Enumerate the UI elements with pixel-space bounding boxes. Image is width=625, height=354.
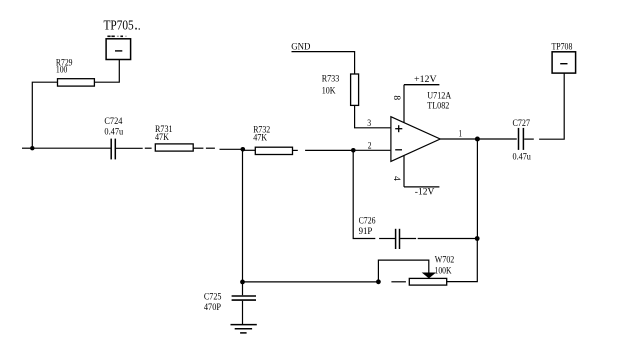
node: C725 junction: [240, 280, 245, 285]
wire: R732 right lead: [293, 149, 298, 151]
wire: bottom rail: [243, 281, 379, 283]
svg-text:4: 4: [391, 176, 401, 181]
artifact marks under TP705: [107, 36, 126, 38]
svg-text:470P: 470P: [204, 303, 221, 313]
svg-text:100K: 100K: [435, 267, 452, 277]
test point TP708 box: [552, 52, 576, 73]
wire: R731 right lead: [193, 147, 203, 149]
svg-text:GND: GND: [291, 42, 310, 52]
svg-text:47K: 47K: [155, 133, 169, 143]
svg-text:8: 8: [391, 95, 401, 100]
wire: op-amp output: [440, 138, 517, 140]
node: R732/C725 branch junction: [241, 147, 246, 152]
resistor R732: [255, 147, 292, 154]
svg-text:U712A: U712A: [427, 92, 451, 102]
node: wiper/bottom rail junction: [376, 279, 381, 284]
wire: wiper loop: [378, 260, 428, 282]
capacitor C726: [395, 229, 397, 249]
svg-text:+12V: +12V: [414, 75, 437, 85]
wire: output node down to feedback junction: [476, 139, 478, 239]
svg-text:C727: C727: [513, 119, 531, 129]
power +12V bar: [404, 84, 439, 86]
wire: junction to C724: [32, 147, 110, 149]
power -12V bar: [404, 186, 439, 188]
resistor R729: [58, 79, 95, 86]
svg-text:R733: R733: [322, 75, 340, 85]
ground: [231, 324, 257, 326]
wire: to R732 junction: [220, 148, 243, 150]
wire: C725 to ground: [242, 301, 244, 325]
wire: R729 to TP705: [94, 60, 119, 83]
svg-text:47K: 47K: [253, 134, 267, 144]
svg-text:100: 100: [56, 66, 68, 76]
svg-text:1: 1: [459, 129, 463, 139]
wire dash: [145, 147, 152, 149]
wire: R732 junction down to C725 junction: [242, 149, 244, 282]
wire: junction to op-amp pin 2: [353, 149, 390, 151]
svg-text:TL082: TL082: [427, 101, 449, 111]
svg-text:2: 2: [368, 141, 372, 151]
wire: +12V to op-amp top edge: [403, 85, 405, 123]
wire: junction up and right to R729: [32, 82, 57, 148]
wire: R733 to op-amp pin 3: [355, 105, 391, 127]
svg-text:91P: 91P: [359, 227, 373, 237]
node: output junction: [475, 137, 480, 142]
svg-text:C725: C725: [204, 293, 222, 303]
wire: to TP708: [539, 73, 564, 139]
wire: GND rail to R733: [292, 52, 355, 74]
op-amp plus input marking: [395, 128, 402, 130]
node: inverting input junction: [351, 148, 356, 153]
svg-text:C724: C724: [104, 117, 122, 127]
svg-text:-12V: -12V: [415, 188, 435, 198]
wire: feedback junction down and left to W702: [447, 239, 478, 282]
resistor R733: [351, 74, 359, 105]
TP708 contact dash: [560, 63, 567, 65]
wire: junction down to C725: [242, 282, 244, 295]
svg-text:C726: C726: [359, 216, 376, 226]
wire: inverting junction down to C726: [353, 150, 375, 238]
wire dash before W702: [391, 281, 406, 283]
wire: C727 right lead: [524, 138, 534, 140]
op-amp minus input marking: [395, 149, 402, 151]
op-amp U712A: [391, 117, 440, 162]
node: feedback junction: [475, 236, 480, 241]
svg-text:10K: 10K: [322, 86, 336, 96]
svg-text:0.47u: 0.47u: [104, 128, 123, 138]
capacitor C725: [232, 295, 256, 297]
capacitor C724: [110, 139, 112, 160]
svg-text:TP708: TP708: [552, 42, 573, 52]
capacitor C727: [518, 128, 520, 150]
svg-text:W702: W702: [435, 256, 455, 266]
potentiometer W702 body: [409, 278, 446, 285]
wire: junction to R732: [243, 149, 256, 151]
artifact dots after TP705: [135, 28, 137, 30]
test point TP705 box: [106, 39, 131, 60]
TP705 contact dash: [115, 50, 122, 52]
wire: to feedback junction: [418, 238, 478, 240]
wire: input stub to junction: [22, 147, 32, 149]
node: input junction: [30, 146, 34, 150]
svg-text:3: 3: [367, 119, 371, 129]
potentiometer wiper arrow: [422, 273, 436, 279]
resistor R731: [155, 144, 193, 151]
wire dash: [206, 147, 215, 149]
wire: to inverting junction: [305, 149, 353, 151]
svg-text:TP705: TP705: [104, 19, 134, 34]
svg-text:0.47u: 0.47u: [513, 153, 532, 163]
wire: C726 right lead: [400, 238, 416, 240]
wire: C724 to R731: [116, 147, 143, 149]
wire: segment to C726 left plate: [379, 238, 395, 240]
wire: op-amp bottom edge to -12V bar: [403, 155, 405, 187]
